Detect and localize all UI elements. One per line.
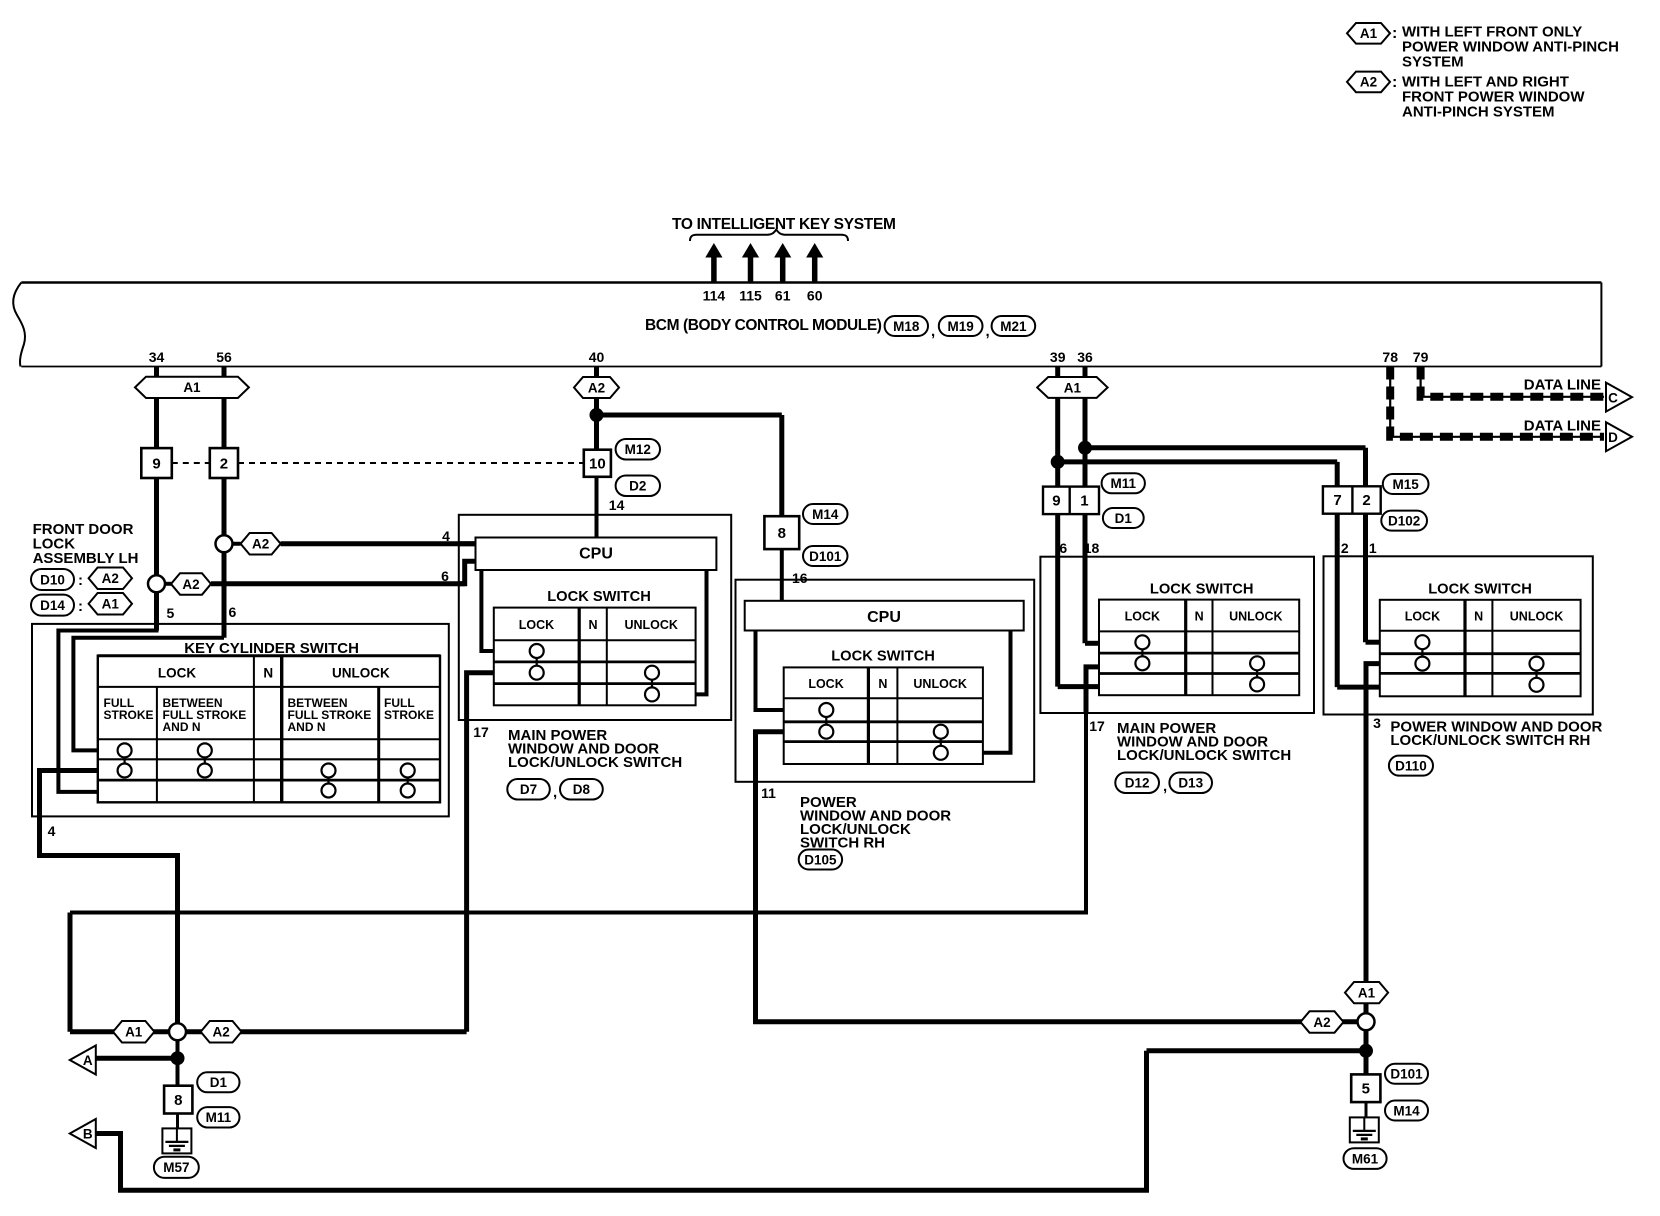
wire to off-page arrow A [96, 1056, 178, 1061]
svg-text:5: 5 [1362, 1080, 1370, 1097]
wire pin 11 down and right to junction A2 [756, 782, 1367, 1022]
svg-text:1: 1 [1369, 540, 1377, 556]
table grid line [784, 720, 983, 723]
wire branch down to connector 8 [779, 415, 784, 516]
svg-text:40: 40 [589, 349, 605, 365]
arrow up from BCM pin 61 [774, 243, 791, 282]
svg-text:UNLOCK: UNLOCK [332, 666, 390, 681]
svg-text:N: N [878, 677, 887, 691]
svg-text:CPU: CPU [579, 546, 613, 563]
connector oval D1 (top right) [1103, 508, 1144, 528]
connector oval D13 [1169, 773, 1212, 794]
connector oval D7 [507, 779, 550, 800]
sub header FULL STROKE (unlock) [384, 696, 434, 722]
svg-text:10: 10 [589, 455, 606, 472]
svg-text:4: 4 [442, 528, 450, 544]
wire to main switch pin 14 [595, 477, 599, 538]
svg-text:D102: D102 [1388, 513, 1420, 528]
svg-text:LOCK SWITCH: LOCK SWITCH [831, 649, 935, 665]
svg-text:D1: D1 [210, 1075, 228, 1090]
arrow up from BCM pin 114 [705, 243, 722, 282]
lock switch table (D110) [1380, 600, 1581, 697]
lock contact row2 (right main) [1135, 656, 1149, 670]
connector oval D8 [560, 779, 603, 800]
lock contact row1 (D110) [1415, 635, 1429, 649]
svg-text:8: 8 [778, 525, 786, 542]
svg-text:UNLOCK: UNLOCK [624, 618, 677, 632]
svg-text:SYSTEM: SYSTEM [1402, 54, 1464, 71]
connector pin box 7/2 [1323, 486, 1381, 513]
wire off-page B to bottom right junction [96, 1051, 1147, 1191]
key cylinder common contact [322, 764, 336, 778]
svg-text:A2: A2 [1313, 1015, 1330, 1030]
contact link [940, 739, 942, 746]
option hexagon A2 (bottom right) [1301, 1011, 1344, 1032]
svg-text:115: 115 [739, 288, 762, 304]
data line wire from pin 79 core [1421, 367, 1604, 397]
wire key cylinder pin 6 to lock contact row [73, 638, 224, 751]
option hexagon A2 for D10 [89, 568, 132, 590]
dashed connector link 9-2 [172, 462, 210, 464]
svg-text:AND N: AND N [288, 720, 326, 734]
junction dot bottom left [171, 1051, 185, 1065]
key cylinder common contact [118, 764, 132, 778]
CPU bar [476, 538, 717, 571]
svg-text:D8: D8 [573, 782, 591, 797]
svg-text:LOCK: LOCK [1125, 610, 1160, 624]
svg-text:N: N [1195, 610, 1204, 624]
svg-text:STROKE: STROKE [104, 708, 154, 722]
wire connector 8 to RH switch pin 16 [780, 549, 784, 601]
POWER WINDOW AND DOOR LOCK/UNLOCK SWITCH RH label (D110) [1390, 719, 1602, 750]
svg-text:A1: A1 [102, 597, 120, 612]
junction dot on pin 40 wire [590, 408, 604, 422]
POWER WINDOW AND DOOR LOCK/UNLOCK SWITCH RH label [800, 794, 951, 852]
ground symbol M61 [1350, 1117, 1379, 1142]
table grid line [253, 656, 255, 803]
svg-text:2: 2 [220, 455, 228, 472]
wire pin 56 to junction and key cylinder pin 6 [222, 478, 227, 638]
key cylinder unlock contact [322, 784, 336, 798]
lock switch table (main switch LH) [494, 608, 696, 706]
key cylinder unlock contact [401, 784, 415, 798]
wire down to junction A1 [68, 913, 73, 1032]
svg-text:5: 5 [167, 605, 175, 621]
option hexagon A1 (bottom right) [1345, 982, 1388, 1003]
CPU bar (RH) [745, 601, 1024, 631]
svg-text::: : [1392, 25, 1397, 42]
svg-text:M11: M11 [1110, 476, 1136, 491]
junction (open) bottom left [169, 1023, 186, 1040]
wire key cylinder common row to pin 4 and down to junction [40, 771, 178, 1033]
wire pin 2 inside box down [1335, 556, 1340, 687]
svg-text:LOCK: LOCK [1405, 610, 1440, 624]
svg-text:17: 17 [1089, 718, 1105, 734]
wire contact row3 to CPU [696, 570, 707, 694]
svg-text:LOCK/UNLOCK SWITCH: LOCK/UNLOCK SWITCH [1117, 747, 1291, 764]
wire connector 5 to ground [1365, 1102, 1368, 1117]
sub header BETWEEN FULL STROKE AND N (unlock) [288, 696, 372, 734]
svg-text:A2: A2 [182, 577, 199, 592]
svg-text:6: 6 [229, 604, 237, 620]
wire branch pin 39 to RH lock/unlock switch pin 2 [1058, 459, 1338, 464]
contact link [1535, 671, 1537, 678]
unlock contact row3 (right main) [1250, 677, 1264, 691]
table grid line [98, 686, 440, 688]
sub header FULL STROKE [104, 696, 154, 722]
junction (open) on 56-wire [216, 535, 233, 552]
svg-text:11: 11 [761, 785, 776, 801]
wire down to D110 pin 1 [1363, 448, 1368, 557]
connector oval D110 [1389, 756, 1433, 776]
connector oval M18 [885, 316, 928, 336]
svg-text:M11: M11 [206, 1110, 232, 1125]
junction dot bottom right [1359, 1044, 1373, 1058]
connector oval M14 [803, 504, 848, 524]
option hexagon A2 (bottom left) [201, 1021, 242, 1043]
wire contact row2 to pin 17 [467, 673, 494, 720]
svg-text:,: , [931, 323, 935, 340]
connector oval M15 [1383, 474, 1429, 494]
table grid line [377, 687, 380, 802]
BCM (Body Control Module) box outline [21, 283, 1601, 367]
junction (open) bottom right [1358, 1013, 1375, 1030]
legend hexagon A1 [1347, 23, 1390, 44]
svg-text:D2: D2 [629, 479, 646, 494]
main power window and door lock/unlock switch box [459, 515, 731, 720]
connector oval D2 [616, 476, 660, 497]
table grid line [156, 687, 158, 802]
wire contact row3 to CPU (RH) [983, 631, 1011, 753]
unlock contact row3 [645, 687, 659, 701]
unlock contact row3 RH [934, 746, 948, 760]
BCM box left edge break squiggle [13, 283, 25, 367]
svg-text:79: 79 [1413, 349, 1429, 365]
power window and door lock/unlock switch RH box [736, 580, 1035, 782]
arrow up from BCM pin 115 [742, 243, 759, 282]
svg-text:M61: M61 [1352, 1151, 1379, 1166]
svg-text:D13: D13 [1178, 776, 1203, 791]
table grid line [784, 740, 983, 743]
off-page arrow A [70, 1046, 96, 1075]
option hexagon A1 for D14 [89, 593, 132, 615]
table grid line [1463, 600, 1466, 697]
svg-text:M15: M15 [1393, 477, 1420, 492]
svg-text:LOCK SWITCH: LOCK SWITCH [1150, 582, 1254, 598]
wire pin 34 to junction and key cylinder pin 5 [154, 478, 159, 631]
connector pin box 8 [764, 516, 799, 549]
svg-text:C: C [1608, 391, 1618, 406]
svg-text:56: 56 [216, 349, 232, 365]
wire to main switch pin 4 [281, 541, 476, 546]
svg-text:16: 16 [792, 570, 808, 586]
contact link [327, 778, 329, 784]
connector pin box 8 (ground) [164, 1086, 192, 1114]
connector oval M57 [154, 1157, 199, 1178]
connector pin box 9/1 [1043, 487, 1099, 514]
svg-text::: : [78, 598, 83, 615]
data line wire from pin 79 (dashed) [1421, 367, 1604, 397]
table grid line [98, 758, 440, 760]
svg-text:D101: D101 [1390, 1067, 1423, 1082]
svg-text:LOCK: LOCK [519, 618, 554, 632]
svg-text:M12: M12 [625, 442, 651, 457]
table grid line [98, 738, 440, 740]
svg-text:N: N [1474, 610, 1483, 624]
svg-text:A1: A1 [125, 1025, 143, 1040]
svg-text:ASSEMBLY LH: ASSEMBLY LH [33, 550, 139, 567]
contact link [407, 778, 409, 784]
svg-text:,: , [986, 323, 990, 340]
svg-text:A1: A1 [1360, 26, 1378, 41]
svg-text:9: 9 [1052, 493, 1060, 510]
wire to main switch pin 6 [211, 581, 465, 586]
arrow up from BCM pin 60 [806, 243, 823, 282]
data line wire from pin 78 core [1390, 367, 1604, 437]
svg-text:6: 6 [441, 568, 449, 584]
svg-text:BCM (BODY CONTROL MODULE): BCM (BODY CONTROL MODULE) [645, 317, 882, 334]
svg-text:AND N: AND N [163, 720, 201, 734]
svg-text:D12: D12 [1125, 776, 1150, 791]
svg-text:114: 114 [703, 288, 726, 304]
wire pin 1 to contact row1 [1366, 640, 1380, 645]
wire pin 6 to contact row3 [1058, 684, 1099, 689]
contact link [651, 680, 653, 688]
connector pin box 9 [141, 448, 172, 478]
svg-text:UNLOCK: UNLOCK [1510, 610, 1563, 624]
svg-text:D1: D1 [1115, 511, 1133, 526]
wire junction to hexagon A2 [224, 542, 241, 546]
svg-text:D14: D14 [40, 598, 65, 613]
connector oval M14 (bottom) [1385, 1101, 1428, 1121]
key cylinder lock contact [198, 743, 212, 757]
connector oval D12 [1115, 773, 1159, 794]
svg-text:M18: M18 [893, 319, 920, 334]
connector oval D10 [31, 569, 74, 590]
svg-text:A1: A1 [183, 380, 201, 395]
svg-text:A1: A1 [1358, 985, 1376, 1000]
svg-text:LOCK SWITCH: LOCK SWITCH [1428, 582, 1532, 598]
wire pin 1 inside box down [1363, 556, 1368, 642]
wire pin 3 down to hexagon A1 [1364, 715, 1369, 983]
svg-text:6: 6 [1059, 540, 1067, 556]
svg-text:18: 18 [1084, 540, 1100, 556]
key cylinder switch table frame [98, 656, 440, 803]
key cylinder switch outer box [32, 624, 449, 817]
table grid line [896, 667, 898, 764]
svg-text:36: 36 [1077, 349, 1093, 365]
svg-text:78: 78 [1382, 349, 1398, 365]
svg-text:STROKE: STROKE [384, 708, 434, 722]
connector oval M12 [616, 439, 660, 460]
wire dot down to connector 8 [176, 1058, 180, 1086]
connector oval D105 [799, 850, 842, 870]
wire contact row2 to pin 17 (right) [1086, 667, 1099, 713]
data line wire from pin 78 (dashed) [1390, 367, 1604, 437]
svg-text:CPU: CPU [867, 609, 901, 626]
svg-text:A2: A2 [588, 380, 605, 395]
svg-text:39: 39 [1050, 349, 1066, 365]
svg-text:UNLOCK: UNLOCK [913, 677, 966, 691]
svg-text:LOCK/UNLOCK SWITCH: LOCK/UNLOCK SWITCH [508, 754, 682, 771]
svg-text:ANTI-PINCH SYSTEM: ANTI-PINCH SYSTEM [1402, 103, 1555, 120]
wire pin 2 to contact row3 [1337, 685, 1380, 690]
wire from BCM pin 34 down [154, 367, 159, 449]
table grid line [1212, 600, 1214, 696]
dashed connector link 2-10 [238, 462, 584, 464]
table grid line [1099, 672, 1299, 675]
svg-text:D105: D105 [804, 852, 837, 867]
option hexagon A2 on pin 4 wire [241, 533, 281, 555]
connector oval M11 (bottom) [197, 1107, 239, 1127]
svg-text:M21: M21 [1000, 319, 1027, 334]
contact link [123, 757, 125, 763]
wire [595, 536, 599, 540]
lock contact row2 [530, 666, 544, 680]
svg-text:DATA LINE: DATA LINE [1524, 417, 1601, 434]
wire pin 18 inside box down [1083, 557, 1088, 644]
table grid line [98, 779, 440, 782]
connector pin box 5 [1351, 1074, 1380, 1102]
wire hexagon A1 through junctions to connector 5 [1364, 1003, 1369, 1074]
svg-text:A1: A1 [1064, 380, 1082, 395]
svg-text:D: D [1608, 430, 1618, 445]
wire junction down to dot [176, 1032, 180, 1058]
wire ground branch B to junction [1147, 1048, 1367, 1053]
wire contact row1 to CPU [481, 570, 493, 651]
connector pin box 2 [210, 448, 238, 478]
table grid line [578, 608, 581, 706]
wire from BCM pin 40 down [594, 367, 599, 450]
contact link [825, 717, 827, 725]
FRONT DOOR LOCK ASSEMBLY LH label [33, 521, 139, 567]
table grid line [494, 682, 696, 685]
table grid line [1184, 600, 1187, 696]
table grid line [280, 656, 283, 803]
svg-text:4: 4 [48, 823, 56, 839]
brace over arrows [690, 230, 848, 242]
connector oval D102 [1381, 511, 1427, 531]
svg-text:LOCK: LOCK [158, 666, 196, 681]
contact link [1256, 670, 1258, 677]
wire pin 18 to contact row1 [1085, 641, 1099, 646]
svg-text:9: 9 [152, 455, 160, 472]
option hexagon A2 on pin 40 [574, 377, 619, 398]
lock switch table (main switch right) [1099, 600, 1299, 696]
svg-text:N: N [588, 618, 597, 632]
legend text for A2 [1402, 73, 1585, 120]
wire pin 6 inside box down [1055, 557, 1060, 687]
sub header BETWEEN FULL STROKE AND N [163, 696, 247, 734]
main power window and door lock/unlock switch box (right) [1040, 557, 1314, 713]
svg-text:D110: D110 [1395, 758, 1427, 773]
unlock contact row2 [645, 666, 659, 680]
table grid line [784, 697, 983, 699]
svg-text:61: 61 [775, 288, 791, 304]
table grid line [867, 667, 870, 764]
unlock contact row2 (D110) [1530, 657, 1544, 671]
table grid line [494, 661, 696, 664]
wire pin 4 to CPU inside box [459, 541, 476, 546]
unlock contact row2 (right main) [1250, 656, 1264, 670]
svg-text::: : [1392, 74, 1397, 91]
connector oval D101 [803, 546, 848, 566]
junction (open) on 34-wire [148, 575, 165, 592]
svg-text:B: B [83, 1127, 93, 1142]
ground symbol M57 [162, 1128, 191, 1153]
off-page arrow C [1606, 383, 1632, 412]
svg-text:A: A [83, 1053, 93, 1068]
unlock contact row2 RH [934, 725, 948, 739]
wire from BCM pin 36 down [1083, 367, 1088, 557]
wire branch pin 36 to RH lock/unlock switch pin 1 [1085, 445, 1366, 450]
contact link [1141, 649, 1143, 656]
wire pin 17 down to junction A2 [464, 720, 469, 1032]
option hexagon A1 (bottom left) [113, 1021, 154, 1043]
power window and door lock/unlock switch RH box (D110) [1324, 556, 1593, 714]
svg-text:14: 14 [609, 497, 625, 513]
svg-text:D7: D7 [520, 782, 537, 797]
lock switch table (RH switch) [784, 667, 983, 764]
legend text for A1 [1402, 24, 1619, 71]
connector oval M21 [992, 316, 1036, 336]
svg-text:1: 1 [1080, 493, 1088, 510]
table grid line [1380, 652, 1581, 655]
junction dot on pin 36 wire [1078, 441, 1092, 455]
wire from BCM pin 56 down [222, 367, 227, 449]
connector oval D101 (bottom) [1385, 1064, 1428, 1084]
svg-text:D101: D101 [809, 549, 842, 564]
connector oval M61 [1344, 1148, 1387, 1169]
svg-text:3: 3 [1373, 715, 1381, 731]
table grid line [1099, 630, 1299, 632]
svg-text:,: , [553, 784, 557, 801]
legend hexagon A2 [1347, 72, 1390, 93]
wire junction to hexagon A2 [157, 582, 172, 586]
key cylinder lock contact [118, 743, 132, 757]
svg-text:M57: M57 [163, 1160, 189, 1175]
svg-text:LOCK: LOCK [808, 677, 843, 691]
svg-text:8: 8 [174, 1092, 182, 1109]
junction dot on pin 39 wire [1051, 455, 1065, 469]
svg-text:DATA LINE: DATA LINE [1524, 377, 1601, 394]
table grid line [494, 639, 696, 641]
svg-text:M14: M14 [812, 507, 839, 522]
key cylinder common contact [401, 764, 415, 778]
lock contact row2 RH [819, 725, 833, 739]
key cylinder common contact [198, 764, 212, 778]
off-page arrow B [70, 1119, 96, 1148]
wire contact row2 to pin 3 [1366, 664, 1380, 715]
contact link [204, 757, 206, 763]
connector oval M11 (top right) [1102, 473, 1145, 493]
MAIN POWER WINDOW AND DOOR LOCK/UNLOCK SWITCH label [508, 727, 682, 771]
connector oval D1 (bottom) [197, 1072, 239, 1092]
MAIN POWER WINDOW AND DOOR LOCK/UNLOCK SWITCH label (right) [1117, 720, 1291, 764]
wire pin 17 (right) down and left [70, 713, 1086, 913]
wire contact row2 to pin 11 (RH) [756, 732, 784, 782]
wire from BCM pin 39 down [1055, 367, 1060, 557]
connector oval M19 [939, 316, 983, 336]
wire hexagon A1 to left riser [70, 1029, 178, 1034]
lock contact row1 RH [819, 703, 833, 717]
svg-text:A2: A2 [212, 1025, 229, 1040]
svg-text:M14: M14 [1393, 1103, 1420, 1118]
wire connector 8 to ground [176, 1114, 179, 1129]
svg-text:34: 34 [149, 349, 165, 365]
table grid line [1491, 600, 1493, 697]
wire key cylinder pin 5 to unlock contact row [58, 624, 156, 792]
